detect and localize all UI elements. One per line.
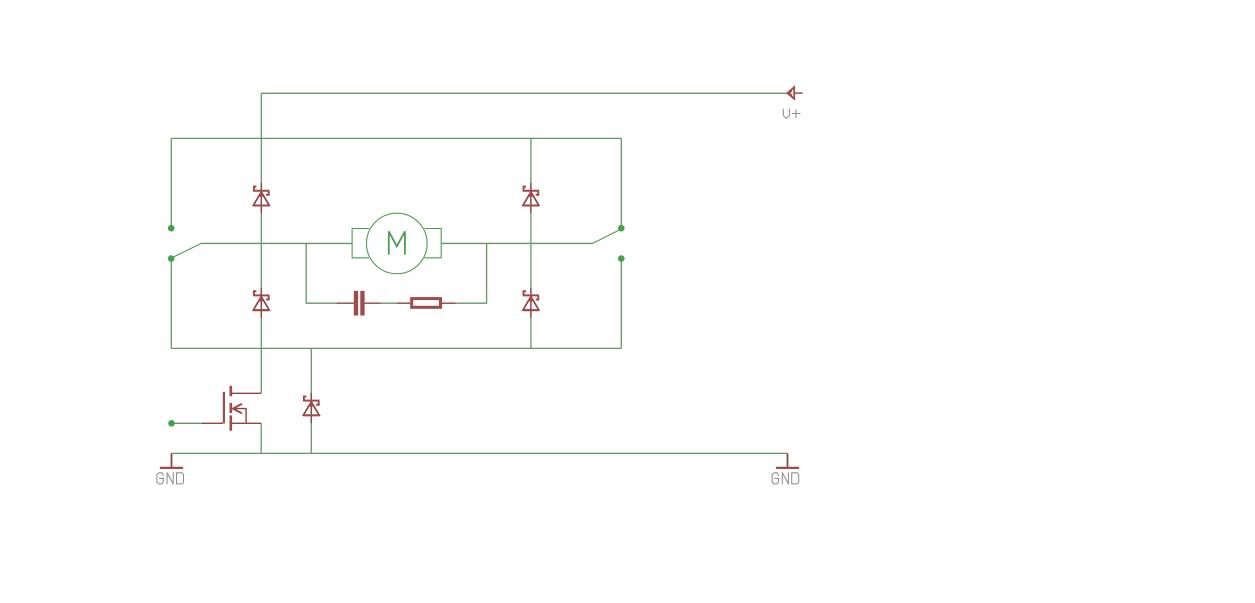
transistor Q1 (N-channel MOSFET): [202, 386, 261, 431]
junction dot switch left upper contact: [168, 225, 175, 232]
wire bridge left edge lower: [170, 259, 172, 349]
wire gate stub: [172, 422, 203, 424]
ground symbol left: [160, 453, 183, 468]
diode D4 (bridge right bottom): [523, 288, 539, 318]
wire bridge right edge lower: [620, 259, 622, 349]
wire bridge left edge upper: [170, 138, 172, 228]
label V+: [783, 109, 800, 118]
wire motor left: [201, 242, 352, 244]
wire bridge bottom rail: [171, 347, 621, 349]
wire bridge top rail: [171, 137, 621, 139]
junction dot switch left lower contact: [168, 255, 175, 262]
wire bottom diode branch: [310, 348, 312, 453]
channel segment drain side: [230, 386, 233, 397]
gate bar: [223, 392, 225, 424]
wire snubber left leg: [306, 243, 336, 303]
diode D3 (bridge right top): [523, 183, 539, 213]
label GND right: [772, 473, 799, 484]
motor M1: [352, 213, 441, 274]
channel segment body: [230, 403, 233, 413]
ground symbol right: [776, 453, 799, 468]
wire bridge right edge upper: [620, 138, 622, 228]
switch blade right: [593, 229, 622, 243]
wire motor right: [441, 242, 592, 244]
resistor R1: [397, 299, 456, 308]
body diode arrow: [233, 404, 242, 414]
wire snubber middle: [381, 302, 397, 304]
body connection: [235, 409, 246, 424]
junction dot switch right lower contact: [618, 255, 625, 262]
wire snubber right leg: [456, 243, 487, 303]
wire main left vertical down to MOSFET drain: [260, 93, 262, 393]
supply symbol V+: [787, 87, 802, 99]
label GND left: [157, 473, 184, 484]
channel segment source side: [230, 415, 233, 430]
diode D2 (bridge left bottom): [253, 288, 269, 318]
wire top V+ feed: [261, 92, 787, 94]
gate lead: [202, 422, 223, 424]
drain lead: [232, 392, 261, 394]
source lead: [232, 422, 261, 424]
switch blade left: [172, 243, 202, 258]
diode D5 (flyback at MOSFET): [303, 393, 319, 423]
wire MOSFET source to ground rail: [260, 423, 262, 453]
junction dot gate net: [168, 420, 175, 427]
junction dot switch right upper contact: [618, 225, 625, 232]
wire right diode branch vertical: [530, 138, 532, 348]
wire ground rail: [171, 452, 787, 454]
capacitor C1: [337, 291, 381, 316]
diode D1 (bridge left top): [253, 183, 269, 213]
